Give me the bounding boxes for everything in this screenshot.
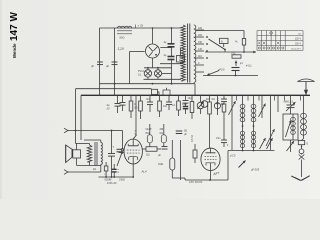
- capacitor Cd1: [120, 95, 126, 111]
- svg-text:220: 220: [198, 27, 203, 30]
- svg-text:0Ω: 0Ω: [184, 130, 187, 133]
- svg-text:μF: μF: [106, 64, 109, 68]
- svg-text:110-125 V: 110-125 V: [291, 49, 301, 51]
- IF coil L2b: [240, 131, 244, 151]
- tube AL4 cathode: [129, 156, 138, 177]
- capacitor Cd6: [218, 95, 228, 140]
- wire rail L2 (upper): [76, 88, 152, 90]
- label uF003: [250, 168, 260, 172]
- svg-text:+ Gl: + Gl: [138, 24, 144, 28]
- transformer tap 150: [195, 41, 204, 44]
- resistor R_h 2ohm: [177, 56, 185, 63]
- wire mid junction: [228, 150, 275, 180]
- svg-text:0,5 M: 0,5 M: [190, 136, 194, 143]
- output transformer secondary: [101, 140, 103, 172]
- svg-text:150 V: 150 V: [295, 44, 301, 46]
- transformer tap a: [195, 34, 204, 37]
- svg-text:μF 003: μF 003: [250, 168, 260, 172]
- loudspeaker cone: [66, 145, 73, 163]
- wire speaker top: [84, 139, 101, 141]
- svg-text:110: 110: [198, 55, 202, 58]
- label 6M022: [284, 101, 294, 104]
- transformer tap 220: [195, 27, 204, 30]
- tube AF7 cathode: [206, 163, 215, 180]
- svg-text:220 V: 220 V: [295, 39, 301, 41]
- svg-text:0,5V' A5 M'4: 0,5V' A5 M'4: [189, 181, 203, 184]
- fuse Si2: [231, 53, 241, 58]
- wire rail B left drop: [80, 95, 82, 140]
- transformer tap b: [195, 48, 204, 51]
- svg-text:3'900: 3'900: [119, 179, 125, 182]
- wire terminal to switch: [112, 131, 123, 149]
- label under Rc1: [146, 154, 150, 157]
- capacitor Cd2: [146, 95, 153, 112]
- wire rectifier anode: [152, 27, 154, 44]
- pilot lamp La1: [144, 68, 151, 77]
- transformer top lead: [195, 31, 244, 39]
- antenna coil L4: [301, 95, 307, 140]
- svg-text:2M: 2M: [160, 127, 164, 131]
- wire stubs on bus: [237, 95, 301, 100]
- tone switch: [117, 149, 124, 167]
- variable arrow across x270: [266, 129, 275, 146]
- label speaker impedance: [93, 169, 96, 171]
- svg-text:2Ω: 2Ω: [93, 169, 96, 171]
- capacitor C_k: [176, 130, 188, 137]
- wire rail L1 (heater return): [100, 83, 196, 96]
- transformer tap d: [195, 71, 204, 73]
- resistor Rd1: [129, 95, 138, 118]
- svg-text:2V: 2V: [106, 107, 110, 111]
- wire electrolytic chain: [171, 27, 173, 84]
- label under AF7: [189, 181, 203, 184]
- pilot lamp La2: [154, 68, 161, 77]
- component small box on rail: [163, 88, 170, 96]
- svg-text:Um: Um: [146, 99, 150, 101]
- tube AF7 grids: [205, 156, 217, 159]
- series element plug: [298, 141, 308, 146]
- wire AL4 bottom: [99, 176, 135, 178]
- svg-text:200: 200: [198, 34, 203, 37]
- voltage selector switch blade: [206, 36, 226, 59]
- svg-text:# 1Ω: # 1Ω: [246, 65, 251, 68]
- capacitor Cd3: [166, 95, 176, 110]
- transformer T1 core: [188, 24, 190, 83]
- capacitor Cd0: [115, 95, 121, 113]
- oscillator coil box: [283, 114, 298, 140]
- wire AL4 feed: [133, 94, 137, 139]
- wire lamps bottom: [144, 77, 182, 79]
- wire mains mid: [205, 51, 250, 53]
- capacitor Cd4: [183, 95, 193, 114]
- transformer T1 primary winding: [180, 25, 186, 81]
- tube AL4 grids: [127, 150, 140, 153]
- output transformer core: [95, 142, 97, 166]
- variable arrow V1: [229, 95, 236, 150]
- wire vertical feed left: [99, 28, 101, 95]
- svg-text:μ°C5: μ°C5: [229, 155, 236, 158]
- svg-text:GHØ: GHØ: [146, 127, 152, 131]
- series box on rail L2: [152, 89, 160, 95]
- voltage table: [257, 31, 303, 51]
- loudspeaker magnet: [73, 150, 81, 158]
- resistor R_c1: [142, 147, 161, 152]
- label: model title Mende 147 W: [9, 12, 20, 58]
- label +Gl: [136, 24, 144, 29]
- wire netz bottom: [203, 71, 258, 77]
- mains switch blade: [207, 71, 219, 76]
- resistor R_sp box: [104, 162, 108, 177]
- capacitor C_b on feed 2: [106, 62, 118, 68]
- resistor R_g AF7: [193, 144, 197, 163]
- resistor R_n: [235, 39, 246, 53]
- svg-text:147 W: 147 W: [9, 12, 20, 41]
- wire aux y63: [160, 63, 183, 65]
- junction dots on rails: [99, 95, 304, 97]
- label AL4: [141, 169, 148, 173]
- trimmer cap C_t: [286, 95, 296, 114]
- IF coil L2a: [240, 95, 245, 131]
- transformer T1 secondary winding: [194, 25, 196, 82]
- variable arrow V5: [239, 161, 246, 168]
- capacitor C_n 0,5uF: [217, 65, 251, 72]
- svg-text:μF 4: μF 4: [134, 130, 138, 136]
- antenna symbol: [298, 79, 315, 95]
- label 1,2V: [118, 47, 125, 51]
- transformer tap 110: [195, 55, 204, 58]
- grid capacitor C_g: [113, 146, 123, 152]
- screen resistor pair 2: [160, 124, 167, 146]
- wire vertical feed 2: [114, 28, 116, 95]
- tube AF7 anode: [206, 148, 216, 153]
- resistor Rd2: [139, 95, 143, 119]
- electrolytic C1: [164, 41, 175, 47]
- output transformer primary: [87, 144, 92, 166]
- label under AL4 a: [105, 179, 126, 182]
- rectifier tube G1: [146, 44, 160, 58]
- label C5: [229, 155, 236, 158]
- resistor Rd4: [177, 95, 187, 116]
- fuse Si1: [220, 38, 229, 47]
- tube AF7 envelope: [201, 148, 220, 170]
- variable arrow under box: [287, 140, 295, 152]
- wire lamp2 link: [162, 72, 172, 74]
- electrolytic C2: [164, 54, 175, 60]
- wire rail A left drop: [75, 89, 77, 144]
- wire drop x270: [270, 95, 272, 150]
- label under AL4 b: [107, 182, 117, 185]
- label 4u2V: [106, 103, 110, 111]
- potentiometer P2: [214, 95, 224, 115]
- wire heater node: [144, 67, 172, 69]
- variable arrows V3 V4: [260, 138, 273, 149]
- svg-text:150: 150: [198, 41, 203, 44]
- wire rectifier to feed: [130, 52, 145, 84]
- capacitor C_a on left feed: [91, 62, 103, 68]
- label 80ohm under choke: [120, 36, 125, 40]
- svg-text:Ψ₁: Ψ₁: [235, 41, 238, 44]
- wire rectifier cathode down: [152, 58, 154, 68]
- transformer tap c: [195, 62, 204, 65]
- variable arrow V2: [259, 95, 266, 118]
- svg-text:13m: 13m: [216, 138, 221, 140]
- resistor R_c2 pill: [158, 158, 175, 170]
- label AF7: [212, 171, 220, 176]
- svg-text:AL4: AL4: [141, 169, 148, 173]
- series lamp: [299, 145, 304, 154]
- svg-text:6M/0,2-2: 6M/0,2-2: [284, 101, 294, 104]
- label uF vertical: [134, 130, 138, 136]
- wire bottom net: [172, 178, 228, 181]
- svg-text:13μ: 13μ: [188, 98, 193, 100]
- capacitor C_sp: [108, 130, 115, 177]
- capacitor C_c1: [158, 147, 168, 158]
- resistor Rd5 (AF7 anode feed): [206, 95, 215, 148]
- wire Rh leads: [180, 48, 182, 64]
- choke L1 (mains filter coil): [117, 26, 132, 34]
- svg-text:80Ω: 80Ω: [120, 36, 125, 40]
- arrow voltage tap: [235, 61, 244, 67]
- svg-text:1,2V: 1,2V: [118, 47, 125, 51]
- svg-text:ΩΩ: ΩΩ: [146, 154, 150, 157]
- svg-text:4Ω: 4Ω: [206, 99, 209, 101]
- wire drop x278: [277, 95, 279, 112]
- IF coil L3b: [251, 131, 255, 151]
- surge gap: [299, 154, 305, 177]
- svg-text:1MΩ: 1MΩ: [158, 163, 163, 166]
- terminal T_bottom: [64, 170, 101, 175]
- svg-text:Mende: Mende: [12, 43, 17, 58]
- svg-text:9¹00'+30: 9¹00'+30: [107, 182, 117, 185]
- wire drop x180: [180, 140, 182, 180]
- svg-text:GΩ: GΩ: [163, 105, 167, 108]
- svg-text:130: 130: [198, 48, 203, 51]
- wire Rc2: [171, 140, 173, 178]
- wire arrow mains right: [250, 51, 256, 54]
- wire rectifier link right: [160, 47, 171, 49]
- IF coil L3a: [251, 95, 256, 131]
- terminal T_top: [64, 128, 112, 133]
- resistor Rd4b: [190, 95, 194, 119]
- screen resistor pair 1: [146, 124, 153, 147]
- tube AL4 anode: [128, 139, 138, 146]
- svg-text:ΩΩ: ΩΩ: [212, 99, 216, 101]
- svg-text:8/Ω: 8/Ω: [146, 131, 150, 135]
- svg-text:μF: μF: [91, 64, 94, 68]
- capacitor Cd6b: [216, 138, 229, 147]
- label lamp value: [138, 70, 145, 77]
- trimmer pair Cd5: [197, 95, 208, 114]
- wire rail B (HT bus): [81, 94, 310, 96]
- wire speaker leads: [76, 144, 101, 166]
- tube AL4 envelope: [124, 139, 142, 164]
- svg-text:C: C: [218, 99, 220, 102]
- wire top rail of mains filter: [100, 27, 182, 29]
- capacitor C_k2: [112, 164, 120, 177]
- svg-text:0Ω: 0Ω: [160, 131, 163, 135]
- label 0,5M vertical: [190, 136, 194, 143]
- tube AL4 grid lead: [119, 152, 125, 154]
- resistor Rd3: [158, 95, 167, 117]
- earth symbol: [291, 176, 309, 181]
